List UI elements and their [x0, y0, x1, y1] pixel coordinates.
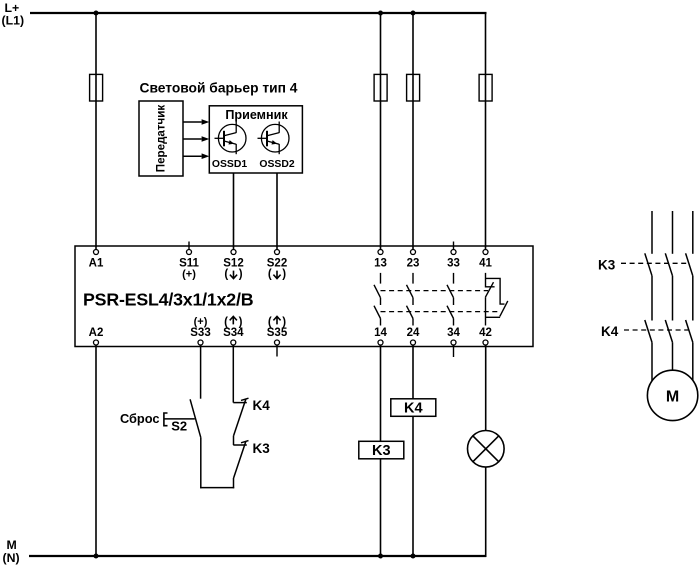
- svg-text:S35: S35: [267, 327, 288, 339]
- svg-text:(: (: [268, 269, 272, 281]
- junction dot coil K4 at M rail: [411, 554, 416, 559]
- contactor K3 main contact phase 2: [665, 253, 672, 275]
- label S2: [171, 419, 187, 434]
- wire 42 to indicator lamp: [485, 345, 487, 431]
- svg-text:S2: S2: [171, 419, 187, 434]
- wire S2 to loop bottom: [200, 438, 202, 489]
- motor phase line 1 upper: [651, 211, 653, 254]
- safety relay box U1 PSR-ESL4: [75, 246, 533, 347]
- junction dot 23 wire at L+ rail: [411, 11, 416, 16]
- svg-text:PSR-ESL4/3x1/1x2/B: PSR-ESL4/3x1/1x2/B: [83, 290, 254, 310]
- junction dot A1 wire at L+ rail: [94, 11, 99, 16]
- wire OSSD2 to terminal S22: [276, 173, 278, 250]
- aux contact K4 (NO feedback): [233, 398, 248, 435]
- receiver label: [225, 108, 288, 122]
- contactor K3 main contact phase 1: [645, 253, 652, 275]
- svg-text:Сброс: Сброс: [120, 411, 160, 426]
- light beam arrow 1: [183, 119, 209, 125]
- wire S34 down to contact K4: [232, 345, 234, 403]
- svg-text:K3: K3: [372, 443, 391, 459]
- aux contact K3 (NO feedback): [233, 441, 248, 478]
- wire coil K4 to M rail: [412, 416, 414, 556]
- contactor K4 main contact phase 3: [686, 320, 693, 342]
- svg-text:13: 13: [374, 258, 387, 270]
- terminal S34: [223, 316, 244, 345]
- label OSSD2: [259, 159, 294, 170]
- transmitter label: [155, 105, 168, 173]
- linkage dashes K3 contactor: [621, 262, 690, 264]
- svg-text:OSSD2: OSSD2: [259, 159, 294, 170]
- wire 24 to coil K4: [412, 345, 414, 399]
- terminal S12: [223, 250, 243, 281]
- svg-text:OSSD1: OSSD1: [212, 159, 247, 170]
- wire L+ rail to fuse F3: [412, 13, 414, 250]
- junction dot coil K3 at M rail: [378, 554, 383, 559]
- terminal S11: [179, 242, 199, 281]
- svg-text:M: M: [666, 388, 679, 405]
- svg-text:14: 14: [374, 327, 387, 339]
- terminal 24: [407, 327, 420, 345]
- fuse F3: [407, 74, 420, 101]
- terminal S35: [267, 316, 288, 356]
- wire L+ rail to fuse F1: [95, 13, 97, 250]
- wire indicator lamp to M rail: [485, 467, 487, 557]
- label K4 (motor contactor): [601, 324, 619, 339]
- svg-text:Приемник: Приемник: [225, 108, 288, 122]
- svg-text:S34: S34: [223, 327, 244, 339]
- terminal 41: [479, 250, 492, 270]
- contactor K4 main contact phase 2: [665, 320, 672, 342]
- terminal 34: [447, 327, 460, 357]
- svg-text:A2: A2: [89, 327, 104, 339]
- mechanical linkage dashed row 2: [381, 311, 501, 313]
- terminal A2: [89, 327, 104, 345]
- wire contact K4 to contact K3: [233, 436, 235, 445]
- light beam arrow 2: [183, 136, 209, 142]
- svg-text:S22: S22: [267, 258, 287, 270]
- motor phase line 2 lower: [672, 342, 674, 370]
- svg-text:): ): [239, 316, 243, 328]
- relay coil K3: [359, 441, 404, 459]
- terminal 13: [374, 250, 387, 270]
- relay contact 41-42 (two NC in series): [485, 273, 507, 326]
- svg-text:): ): [282, 316, 286, 328]
- label K4 (feedback contact): [253, 398, 271, 413]
- terminal 33: [447, 242, 460, 270]
- motor phase line 3 middle: [692, 276, 694, 321]
- svg-text:34: 34: [447, 327, 460, 339]
- svg-text:41: 41: [479, 258, 492, 270]
- svg-text:(N): (N): [3, 551, 20, 565]
- terminal 14: [374, 327, 387, 345]
- wire coil K3 to M rail: [380, 459, 382, 556]
- svg-text:S33: S33: [190, 327, 210, 339]
- relay coil K4: [391, 399, 436, 417]
- wire contact K3 to loop bottom: [233, 478, 235, 488]
- junction dot A2 wire at M rail: [94, 554, 99, 559]
- svg-text:S12: S12: [223, 258, 243, 270]
- indicator lamp H1: [468, 431, 505, 468]
- terminal 23: [407, 250, 420, 270]
- phototransistor Q1 (OSSD1): [215, 122, 247, 155]
- terminal S22: [267, 250, 287, 281]
- label Сброс: [120, 411, 160, 426]
- wire S33 down to reset switch: [200, 345, 202, 399]
- terminal 42: [479, 327, 492, 345]
- receiver box: [209, 106, 302, 173]
- transmitter box: [139, 101, 183, 176]
- relay contact 23-24 (two NO in series): [407, 273, 414, 326]
- fuse F1: [90, 74, 103, 101]
- fuse F4: [479, 74, 492, 101]
- svg-text:(L1): (L1): [2, 14, 25, 28]
- svg-text:): ): [239, 269, 243, 281]
- svg-text:): ): [282, 269, 286, 281]
- svg-text:(: (: [224, 269, 228, 281]
- terminal S33: [190, 316, 210, 345]
- relay type label: [83, 290, 254, 310]
- contactor K4 main contact phase 1: [645, 320, 652, 342]
- svg-text:K4: K4: [253, 398, 271, 413]
- svg-text:Световой барьер тип 4: Световой барьер тип 4: [140, 81, 298, 96]
- junction dot 13 wire at L+ rail: [378, 11, 383, 16]
- svg-text:(+): (+): [194, 316, 208, 328]
- motor phase line 2 upper: [672, 211, 674, 254]
- wire L+ rail to fuse F2: [380, 13, 382, 250]
- svg-text:23: 23: [407, 258, 420, 270]
- svg-text:K3: K3: [598, 257, 616, 272]
- motor M1: [647, 370, 697, 420]
- svg-text:33: 33: [447, 258, 460, 270]
- wire L+ rail corner to fuse F4: [485, 12, 487, 250]
- motor phase line 2 middle: [672, 276, 674, 321]
- label K3 (motor contactor): [598, 257, 616, 272]
- label L+ (L1): [2, 1, 25, 28]
- light barrier title: [140, 81, 298, 96]
- reset button S2 (NO pushbutton): [164, 399, 201, 437]
- svg-text:42: 42: [479, 327, 492, 339]
- label K3 (feedback contact): [253, 441, 271, 456]
- svg-text:(: (: [224, 316, 228, 328]
- wire A2 to M rail: [95, 345, 97, 556]
- terminal A1: [89, 250, 104, 270]
- motor phase line 1 lower: [651, 342, 653, 381]
- svg-text:24: 24: [407, 327, 420, 339]
- wire OSSD1 to terminal S12: [233, 173, 235, 250]
- reset loop bottom wire: [200, 487, 234, 489]
- relay contact 33-34 (two NO in series): [447, 273, 454, 326]
- svg-text:M: M: [7, 538, 17, 552]
- svg-text:(: (: [268, 316, 272, 328]
- light beam arrow 3: [183, 153, 209, 159]
- phototransistor Q2 (OSSD2): [258, 122, 290, 155]
- motor phase line 3 upper: [692, 211, 694, 254]
- contactor K3 main contact phase 3: [686, 253, 693, 275]
- net M rail: [29, 555, 486, 557]
- svg-text:K3: K3: [253, 441, 271, 456]
- svg-text:K4: K4: [601, 324, 619, 339]
- motor phase line 3 lower: [692, 342, 694, 381]
- relay contact 13-14 (two NO in series): [374, 273, 381, 326]
- svg-text:(+): (+): [182, 269, 196, 281]
- mechanical linkage dashed row 1: [381, 290, 489, 292]
- motor phase line 1 middle: [651, 276, 653, 321]
- linkage dashes K4 contactor: [624, 329, 690, 331]
- label OSSD1: [212, 159, 247, 170]
- wire 14 to coil K3: [380, 345, 382, 441]
- svg-text:Передатчик: Передатчик: [155, 105, 168, 173]
- svg-text:A1: A1: [89, 258, 104, 270]
- net L+ rail: [30, 12, 487, 14]
- label M (N): [3, 538, 20, 565]
- fuse F2: [374, 74, 387, 101]
- svg-text:K4: K4: [404, 401, 423, 417]
